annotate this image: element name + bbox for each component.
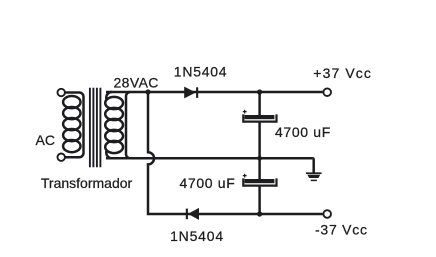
svg-text:4700 uF: 4700 uF <box>180 175 236 191</box>
svg-text:1N5404: 1N5404 <box>174 64 228 80</box>
output terminal +37V <box>323 88 331 96</box>
transformer core <box>90 88 101 168</box>
svg-text:4700 uF: 4700 uF <box>275 124 331 140</box>
svg-text:Transformador: Transformador <box>41 175 133 191</box>
node D junction (bottom rail to C2) <box>257 211 262 216</box>
output terminal -37V <box>323 210 331 218</box>
capacitor C1 4700uF (top, polarized) <box>243 110 277 122</box>
svg-text:-37 Vcc: -37 Vcc <box>315 221 368 237</box>
wire middle rail (center tap to ground) <box>106 157 312 160</box>
transformer primary top terminal <box>58 89 65 96</box>
transformer primary bottom terminal <box>58 154 65 161</box>
transformer T1 primary winding <box>63 93 83 158</box>
svg-text:28VAC: 28VAC <box>114 75 159 91</box>
node A junction (top node at transformer) <box>145 89 150 94</box>
wire top rail <box>106 91 323 94</box>
diode D2 1N5404 (bottom, pointing left) <box>186 208 199 220</box>
capacitor C2 4700uF (bottom, polarized) <box>243 174 277 186</box>
wire capacitor branch between C1 and middle rail <box>258 122 261 159</box>
transformer T1 secondary winding <box>105 92 130 158</box>
svg-text:1N5404: 1N5404 <box>170 228 224 244</box>
wire capacitor branch upper <box>258 92 261 116</box>
wire capacitor branch lower <box>258 186 261 214</box>
svg-text:AC: AC <box>36 132 55 148</box>
node B junction (top rail to C1) <box>257 89 262 94</box>
wire from top node down (hops over middle rail) and bottom rail to -37 terminal <box>148 92 323 214</box>
node C junction (middle rail cross) <box>257 156 262 161</box>
wire capacitor branch between middle rail and C2 <box>258 158 261 179</box>
diode D1 1N5404 (top, pointing right) <box>184 87 198 99</box>
svg-text:+37 Vcc: +37 Vcc <box>313 65 372 81</box>
ground <box>306 173 322 180</box>
wire ground stub <box>312 158 313 173</box>
